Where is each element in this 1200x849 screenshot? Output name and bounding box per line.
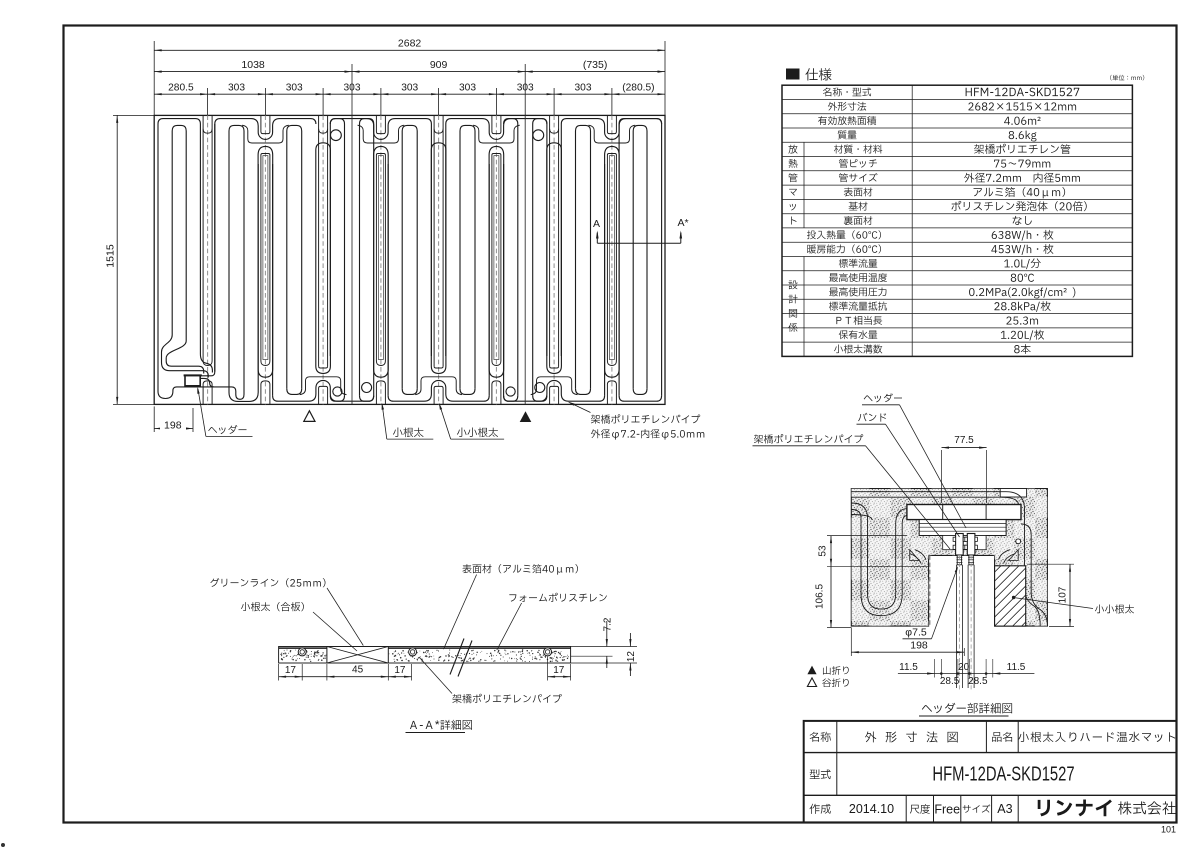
svg-text:HFM-12DA-SKD1527: HFM-12DA-SKD1527 <box>932 762 1074 785</box>
company logo Rinnai <box>1038 799 1112 816</box>
label konedata (joist) <box>393 428 424 438</box>
joist J4 groove capsule <box>376 154 385 362</box>
dimension row 1038 / 909 / (735) <box>154 71 665 73</box>
valley fold mark (open triangle) <box>304 411 315 422</box>
joist J8 top slot <box>607 115 616 133</box>
section dim 7.2 <box>571 646 637 648</box>
joist J6 top slot <box>492 115 501 133</box>
spec table group labels <box>788 145 797 154</box>
joist J4 top slot <box>376 115 385 133</box>
svg-text:Free: Free <box>934 803 960 817</box>
joist J6 green-line inner slot <box>494 156 499 360</box>
pipe capsule ring at J5 <box>431 143 446 164</box>
serpentine vertical pipe runs <box>215 124 662 396</box>
dim 107 <box>1069 564 1071 626</box>
pipe channels top horizontals <box>851 492 1040 626</box>
cell c2 inner top arch <box>229 125 244 131</box>
joist J3 top slot cap <box>319 129 328 134</box>
svg-text:198: 198 <box>164 419 182 431</box>
pipe bottom arch with bump at J3 <box>273 380 374 401</box>
svg-text:2682: 2682 <box>398 38 422 50</box>
joist J8 centerline (dashed) <box>611 115 613 404</box>
joist J5 groove lines <box>433 115 435 366</box>
svg-text:17: 17 <box>394 665 406 676</box>
joist J3 bottom slot <box>319 386 328 404</box>
dimension row 280.5 / 303... / (280.5) <box>154 93 665 95</box>
title block frame <box>804 721 1177 823</box>
svg-text:11.5: 11.5 <box>1007 662 1026 673</box>
joist J1 centerline (dashed) <box>207 115 209 404</box>
fold cell c7 bottom arches and loops <box>504 396 518 402</box>
svg-text:A3: A3 <box>997 802 1012 816</box>
pipe barb stub <box>957 555 961 565</box>
joist J8 groove capsule <box>607 154 616 362</box>
label surface material <box>462 564 578 575</box>
pipe top arch with dip at J4 <box>330 119 431 140</box>
svg-text:(280.5): (280.5) <box>622 83 654 94</box>
cell c5 inner top arch <box>402 125 417 131</box>
pipe capsule ring at J7 <box>547 143 562 164</box>
mat cutout outline at J4 top <box>358 125 405 143</box>
label small joist (detail) <box>1095 604 1134 613</box>
mat cutout outline at J8 top <box>589 125 636 143</box>
spec table title <box>786 69 800 80</box>
svg-text:A*: A* <box>677 217 688 229</box>
pipe channels left (big U) <box>851 510 908 616</box>
pipe capsule ring at J2 <box>258 146 273 164</box>
joist J1 top slot cap <box>203 129 212 134</box>
fold cell c7 top arches and loop <box>504 119 518 124</box>
small joist hatched box <box>995 566 1026 626</box>
mat cutout outline at J3 bottom <box>300 377 347 395</box>
svg-text:280.5: 280.5 <box>168 83 194 94</box>
pipes leaving header downward <box>955 565 957 688</box>
joist J5 top slot cap <box>434 129 443 134</box>
pipe channel right outer <box>1021 524 1047 626</box>
svg-text:303: 303 <box>286 83 303 94</box>
plan view mat outline <box>154 115 665 404</box>
label pipe (detail) <box>754 434 863 443</box>
label small konedata <box>457 428 498 438</box>
joist J3 centerline (dashed) <box>322 115 324 404</box>
section dim 17 right <box>548 676 571 678</box>
pipe run c1.r4 arch into header top <box>200 124 212 373</box>
cell c5 inner bottom arch <box>402 389 417 395</box>
label konedata plywood <box>241 602 304 611</box>
title row3 texts <box>810 804 831 814</box>
joist J5 bottom slot <box>434 386 443 404</box>
svg-text:909: 909 <box>430 59 448 71</box>
bottom dims 11.5 / 28.5 / 20 / 28.5 / 11.5 <box>898 673 1035 675</box>
svg-text:11.5: 11.5 <box>899 662 918 673</box>
joist J1 bottom slot <box>203 381 212 405</box>
mat cutout outline at J7 bottom <box>531 377 578 395</box>
pipe capsule ring at J4 <box>374 146 389 164</box>
joist J7 centerline (dashed) <box>553 115 555 404</box>
cell c3 inner bottom arch <box>287 389 302 395</box>
header detail mat block (stippled) <box>851 489 1047 627</box>
pipe S-sweep from run c1.r3 to header <box>166 131 204 374</box>
fold line in cell c4 <box>351 115 353 404</box>
fold cell c4 top arches and loop <box>330 119 344 124</box>
svg-text:303: 303 <box>517 83 534 94</box>
section cut line A-A <box>597 242 681 244</box>
svg-text:198: 198 <box>910 640 928 652</box>
title row1 texts <box>810 732 831 742</box>
fold cell c4 bottom arches and loops <box>330 396 344 402</box>
cell c6 inner bottom arch <box>460 389 475 395</box>
pipe run c1.r1 with U-turn, underpass line and U-turn up to c2.r3 <box>158 124 244 399</box>
dimension 198 (header position) <box>154 428 193 430</box>
svg-text:28.5: 28.5 <box>940 676 960 687</box>
joist J5 centerline (dashed) <box>438 115 440 404</box>
label pipe note (plan) <box>591 414 700 423</box>
svg-text:77.5: 77.5 <box>954 435 974 446</box>
pipe barb stub <box>969 555 973 565</box>
cell9 nested top arches <box>619 119 662 124</box>
svg-text:A: A <box>593 218 600 230</box>
svg-text:2014.10: 2014.10 <box>849 802 894 816</box>
pipe fittings and band clamps <box>956 534 964 556</box>
svg-text:17: 17 <box>553 665 565 676</box>
label band <box>858 413 886 422</box>
top right white notch <box>1000 489 1026 498</box>
joist J6 bottom slot <box>492 381 501 405</box>
joist J8 green-line inner slot <box>609 156 614 360</box>
legend valley fold <box>807 678 816 687</box>
section bar outline <box>279 647 571 664</box>
joist J7 groove lines <box>549 115 551 366</box>
pipe big U-turn c2.r2 to c2.r4 <box>229 131 258 401</box>
stray mark bottom left <box>1 843 5 847</box>
pipe capsule ring at J3 <box>316 143 331 164</box>
section pipe circles <box>298 648 306 656</box>
title block row3 cells <box>905 795 907 822</box>
joist J2 bottom slot <box>261 381 270 405</box>
small pipe circle <box>1016 539 1021 544</box>
section dim 12 <box>629 633 631 647</box>
cell c8 inner bottom arch <box>576 389 591 395</box>
section stipple texture <box>280 649 568 662</box>
header box <box>185 375 200 385</box>
joist J3 groove lines <box>318 115 320 366</box>
svg-text:303: 303 <box>459 83 476 94</box>
joist J2 centerline (dashed) <box>264 115 266 404</box>
pipe bottom arch with bump at J5 <box>388 380 489 401</box>
spec table grid <box>782 85 1132 356</box>
joist J8 bottom slot <box>607 381 616 405</box>
pipe top arch with dip at J2 <box>215 119 316 140</box>
joist J7 bottom slot <box>550 386 559 404</box>
cell9 nested bottom arches <box>619 396 662 402</box>
svg-text:303: 303 <box>401 83 418 94</box>
title block row1 cells <box>836 721 838 795</box>
joist J2 groove capsule <box>261 154 270 362</box>
svg-text:101: 101 <box>1161 825 1176 835</box>
dim 198 (header detail) <box>851 651 964 653</box>
pipe channel top third <box>851 515 872 521</box>
svg-text:1038: 1038 <box>241 59 265 71</box>
fold line in cell c7 <box>524 115 526 404</box>
label header (detail) <box>864 393 902 402</box>
notch dashed hidden edge <box>929 555 931 626</box>
svg-text:303: 303 <box>575 83 592 94</box>
pipe exit from header to the right <box>200 378 214 387</box>
header corner gussets <box>910 550 920 561</box>
joist J7 top slot cap <box>550 129 559 134</box>
pipe top arch with dip at J6 <box>446 119 547 140</box>
joist J6 centerline (dashed) <box>495 115 497 404</box>
joist J6 groove capsule <box>492 154 501 362</box>
svg-text:1515: 1515 <box>105 244 117 268</box>
cell c6 inner top arch <box>460 125 475 131</box>
svg-text:107: 107 <box>1058 586 1069 603</box>
section break marks <box>450 639 464 675</box>
dim 106.5 <box>830 566 832 627</box>
cell c3 inner top arch <box>287 125 302 131</box>
section caption A-A detail <box>410 720 472 730</box>
mountain fold mark (filled triangle) <box>520 411 532 422</box>
svg-text:12: 12 <box>626 651 637 663</box>
svg-text:28.5: 28.5 <box>968 676 988 687</box>
dimension 1515 (height) <box>116 115 118 404</box>
label greenline <box>210 578 325 587</box>
svg-text:303: 303 <box>228 83 245 94</box>
joist J1 groove lines <box>202 115 204 361</box>
mat cutout outline at J5 bottom <box>415 377 462 395</box>
joist J2 top slot <box>261 115 270 133</box>
pipe S-sweep from run c1.r2 to header <box>162 131 209 378</box>
joist J2 green-line inner slot <box>263 156 268 360</box>
pipe capsule ring at J8 <box>605 146 620 164</box>
svg-text:53: 53 <box>818 545 829 557</box>
legend mountain fold <box>807 666 816 675</box>
dimension 2682 (overall width) <box>154 49 665 51</box>
section dims 17 45 17 <box>279 676 412 678</box>
svg-text:106.5: 106.5 <box>815 584 826 609</box>
header detail caption <box>922 703 1012 714</box>
svg-text:7.2: 7.2 <box>602 617 613 631</box>
pipe top arch with dip at J8 <box>561 119 661 140</box>
joist J4 bottom slot <box>376 381 385 405</box>
header body <box>907 505 1021 520</box>
joist cross-section box with X <box>327 647 388 664</box>
mat cutout outline at J2 top <box>242 125 289 143</box>
cell1 nested top arches <box>158 119 200 124</box>
dim 77.5 <box>942 447 987 449</box>
svg-text:φ7.5: φ7.5 <box>905 627 927 639</box>
mat cutout outline at J6 top <box>473 125 520 143</box>
svg-text:45: 45 <box>352 665 364 676</box>
svg-text:17: 17 <box>285 665 297 676</box>
pipe capsule ring at J6 <box>489 146 504 164</box>
svg-text:(735): (735) <box>583 59 608 71</box>
svg-text:303: 303 <box>344 83 361 94</box>
dim 53 <box>830 536 832 567</box>
title row2 model number <box>810 769 831 779</box>
joist J4 centerline (dashed) <box>380 115 382 404</box>
pipe bottom arch with bump at J7 <box>504 380 605 401</box>
label foam polystyrene <box>509 593 607 602</box>
svg-text:20: 20 <box>958 662 970 673</box>
cell c8 inner top arch <box>576 125 591 131</box>
pipe channels into notch <box>915 550 926 560</box>
label header (plan) <box>208 425 246 434</box>
joist J4 green-line inner slot <box>378 156 383 360</box>
pipe run c2.r1 elbow into header <box>201 124 215 376</box>
spec table rows text <box>823 87 871 96</box>
label pipe (section) <box>452 694 561 703</box>
